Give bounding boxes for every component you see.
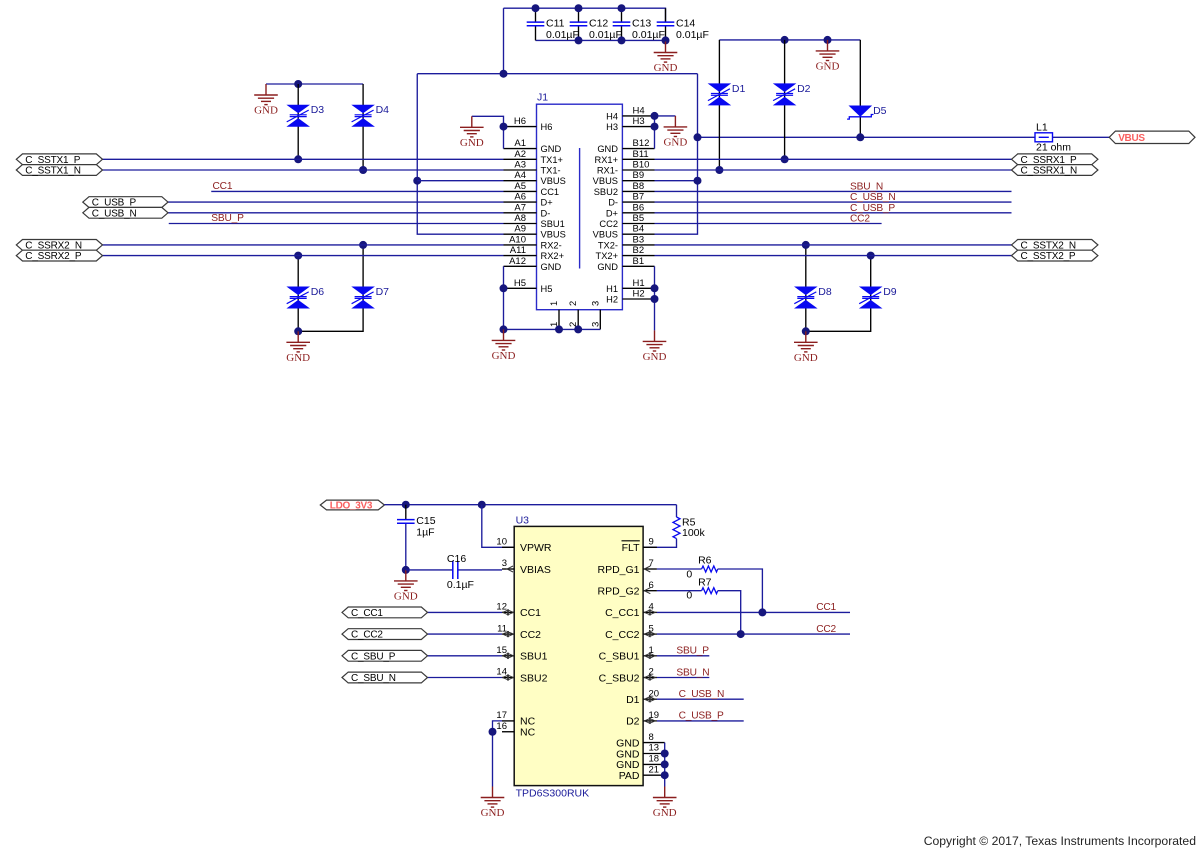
inductor L1 (ferrite bead) xyxy=(1035,122,1071,154)
svg-text:0.01µF: 0.01µF xyxy=(589,29,622,41)
port flag C_SSRX2_P xyxy=(16,250,102,262)
svg-text:D3: D3 xyxy=(311,104,325,116)
IC U3 (TPD6S300RUK) xyxy=(514,515,643,800)
svg-text:CC2: CC2 xyxy=(520,629,541,641)
wire - RPD_G2 to R7 xyxy=(657,590,702,592)
svg-text:1: 1 xyxy=(549,301,559,306)
port flag C_CC1 xyxy=(342,607,428,619)
svg-text:SBU_P: SBU_P xyxy=(676,646,709,657)
svg-text:H3: H3 xyxy=(633,116,645,127)
svg-text:A6: A6 xyxy=(514,192,526,203)
J1 pin A11 (RX2+) xyxy=(504,245,565,261)
J1 pin B10 (RX1-) xyxy=(597,160,655,176)
wire - VBUS horizontal y=73.7 xyxy=(417,73,697,75)
svg-text:VBUS: VBUS xyxy=(593,230,618,240)
U3 pin 3 (VBIAS) xyxy=(502,558,551,576)
diode D6 vertical pin xyxy=(297,256,299,332)
junction xyxy=(478,501,486,509)
J1 pin B3 (TX2-) xyxy=(598,234,655,250)
svg-text:D6: D6 xyxy=(311,286,325,298)
junction xyxy=(500,325,508,333)
port flag C_SSTX1_N xyxy=(16,165,102,177)
svg-text:B4: B4 xyxy=(633,224,645,235)
wire - top of C11-C14 bank xyxy=(504,8,666,22)
svg-text:C_SBU_P: C_SBU_P xyxy=(351,651,396,662)
capacitor C15 xyxy=(397,515,436,539)
svg-text:GND: GND xyxy=(394,590,418,602)
capacitor C16 xyxy=(447,553,474,591)
U3 pin 7 (RPD_G1) xyxy=(597,558,656,576)
U3 pin 11 (CC2) xyxy=(497,623,541,641)
diode D5 vertical pin xyxy=(859,40,861,137)
diode D3 (bidirectional TVS) xyxy=(286,104,324,127)
diode D8 (bidirectional TVS) xyxy=(794,286,832,309)
port flag C_USB_P xyxy=(83,197,168,209)
wire - C_SSTX2_N net xyxy=(655,244,1012,246)
wire - H4/H3/B12 ground hook xyxy=(655,116,676,149)
J1 pin A9 (VBUS) xyxy=(504,224,566,240)
svg-text:A9: A9 xyxy=(514,224,526,235)
capacitor pin x=535.5 xyxy=(535,8,537,40)
svg-text:3: 3 xyxy=(590,322,601,327)
J1 pin A1 (GND) xyxy=(504,138,562,154)
J1 pin A5 (CC1) xyxy=(504,181,560,197)
junction xyxy=(661,771,669,779)
J1 pin B2 (TX2+) xyxy=(596,245,655,261)
J1 pin A3 (TX1-) xyxy=(504,160,561,176)
wire - D1/D2/D5 top rail xyxy=(719,39,860,41)
svg-text:C_SBU2: C_SBU2 xyxy=(599,672,640,684)
ground under C14 xyxy=(654,42,678,75)
svg-text:0: 0 xyxy=(686,589,692,601)
J1 pin A8 (SBU1) xyxy=(504,213,565,229)
port flag C_SSTX2_P xyxy=(1012,250,1098,262)
svg-text:C15: C15 xyxy=(416,515,435,527)
U3 pin 10 (VPWR) xyxy=(496,537,551,555)
wire - NC17 hook xyxy=(493,721,503,732)
svg-text:SBU2: SBU2 xyxy=(520,672,548,684)
junction xyxy=(824,36,832,44)
junction xyxy=(694,133,702,141)
capacitor pin x=578.5 xyxy=(578,8,580,40)
wire - C_SSTX1_N net xyxy=(103,169,504,171)
svg-text:GND: GND xyxy=(643,351,667,363)
wire - GND pins chain xyxy=(664,743,666,787)
wire - C_SSRX1_N net xyxy=(655,169,1012,171)
diode D2 vertical pin xyxy=(784,40,786,159)
svg-text:TX2-: TX2- xyxy=(598,240,618,250)
svg-text:B7: B7 xyxy=(633,192,645,203)
resistor R5 xyxy=(673,516,706,538)
J1 pin H6 (H6) xyxy=(504,116,553,132)
connector J1 (USB Type-C receptacle) xyxy=(537,92,623,310)
svg-text:A3: A3 xyxy=(514,160,526,171)
capacitor C15 top pin xyxy=(405,505,407,520)
svg-text:10: 10 xyxy=(496,537,507,548)
svg-text:0: 0 xyxy=(686,569,692,581)
svg-text:1µF: 1µF xyxy=(416,526,434,538)
svg-text:B5: B5 xyxy=(633,213,645,224)
U3 pin 17 (NC) xyxy=(496,710,535,728)
svg-text:VBUS: VBUS xyxy=(541,176,566,186)
J1 pin A10 (RX2-) xyxy=(504,234,562,250)
wire - C_USB_P net (U3) xyxy=(657,720,744,722)
svg-text:B1: B1 xyxy=(633,256,645,267)
J1 pin H5 (H5) xyxy=(504,278,553,294)
svg-text:C_SBU1: C_SBU1 xyxy=(599,651,640,663)
capacitor pin x=621.5 xyxy=(621,8,623,40)
wire - SBU_N net xyxy=(655,190,1012,192)
svg-text:H4: H4 xyxy=(606,111,618,121)
svg-text:SBU2: SBU2 xyxy=(594,187,618,197)
junction xyxy=(402,566,410,574)
svg-text:C13: C13 xyxy=(632,17,651,29)
svg-text:CC2: CC2 xyxy=(599,219,618,229)
svg-text:2: 2 xyxy=(568,301,578,306)
wire - VBUS to L1 xyxy=(698,136,1036,138)
svg-text:RX1+: RX1+ xyxy=(594,155,618,165)
U3 pin 4 (C_CC1) xyxy=(605,602,657,620)
J1 pin H1 (H1) xyxy=(606,278,654,294)
svg-text:H6: H6 xyxy=(514,116,526,127)
capacitor pin x=665.5 xyxy=(665,8,667,40)
svg-text:SBU1: SBU1 xyxy=(541,219,565,229)
wire - L1 to VBUS flag xyxy=(1053,136,1110,138)
J1 pin A4 (VBUS) xyxy=(504,170,566,186)
svg-text:100k: 100k xyxy=(682,527,706,539)
svg-text:16: 16 xyxy=(496,721,507,732)
J1 pin B1 (GND) xyxy=(597,256,654,272)
svg-text:CC1: CC1 xyxy=(541,187,560,197)
svg-text:C_CC2: C_CC2 xyxy=(351,630,383,641)
svg-text:SBU_N: SBU_N xyxy=(850,182,883,193)
U3 pin 2 (C_SBU2) xyxy=(599,667,657,685)
junction xyxy=(802,327,810,335)
diode D3 vertical pin xyxy=(297,84,299,159)
wire - A12/H5/shell ground xyxy=(504,266,601,329)
U3 pin 1 (C_SBU1) xyxy=(599,645,657,663)
svg-text:A7: A7 xyxy=(514,202,526,213)
port flag C_SSRX1_P xyxy=(1012,154,1098,166)
port flag C_CC2 xyxy=(342,629,428,641)
svg-text:H6: H6 xyxy=(541,122,553,132)
svg-text:B2: B2 xyxy=(633,245,645,256)
svg-text:TPD6S300RUK: TPD6S300RUK xyxy=(516,788,590,800)
port flag VBUS xyxy=(1109,131,1195,144)
svg-text:TX1+: TX1+ xyxy=(541,155,563,165)
junction xyxy=(575,4,583,12)
svg-text:8: 8 xyxy=(649,732,654,743)
svg-text:C_USB_P: C_USB_P xyxy=(850,203,895,214)
junction xyxy=(294,155,302,163)
svg-text:FLT: FLT xyxy=(622,542,640,554)
wire - NC to ground xyxy=(492,732,494,787)
junction xyxy=(359,241,367,249)
svg-text:GND: GND xyxy=(460,137,484,149)
ground at J1 top-left xyxy=(460,116,484,149)
ground under C15 xyxy=(394,570,418,603)
diode D1 (bidirectional TVS) xyxy=(708,83,746,106)
ground top-right rail xyxy=(816,40,840,73)
svg-text:6: 6 xyxy=(649,580,654,591)
junction xyxy=(651,284,659,292)
svg-text:C_SSTX2_P: C_SSTX2_P xyxy=(1021,251,1076,262)
junction xyxy=(532,4,540,12)
junction xyxy=(867,252,875,260)
wire - RPD_G1 to R6 xyxy=(657,568,702,570)
svg-text:B3: B3 xyxy=(633,234,645,245)
svg-text:13: 13 xyxy=(649,743,660,754)
svg-text:3: 3 xyxy=(502,558,507,569)
junction xyxy=(574,325,582,333)
J1 pin A2 (TX1+) xyxy=(504,149,563,165)
svg-text:L1: L1 xyxy=(1036,122,1048,134)
diode D7 (bidirectional TVS) xyxy=(351,286,389,309)
wire - CC1 net (U3) xyxy=(657,611,850,613)
wire - R5 top xyxy=(676,505,678,517)
svg-text:17: 17 xyxy=(496,710,507,721)
junction xyxy=(856,133,864,141)
wire - H6/A1 ground hook xyxy=(472,116,504,148)
svg-text:B8: B8 xyxy=(633,181,645,192)
J1 pin A7 (D-) xyxy=(504,202,551,218)
junction xyxy=(661,760,669,768)
resistor R6 xyxy=(686,555,717,581)
svg-text:A12: A12 xyxy=(509,256,526,267)
junction xyxy=(715,166,723,174)
svg-text:B12: B12 xyxy=(633,138,650,149)
U3 pin 12 (CC1) xyxy=(496,602,541,620)
port flag C_SBU_P xyxy=(342,650,428,662)
svg-text:R7: R7 xyxy=(698,576,712,588)
wire - B9 VBUS xyxy=(655,180,698,182)
capacitor C11 xyxy=(527,17,579,41)
diode D6 (bidirectional TVS) xyxy=(286,286,324,309)
svg-text:A1: A1 xyxy=(514,138,526,149)
svg-text:GND: GND xyxy=(541,144,562,154)
wire - C_CC2 net xyxy=(428,633,503,635)
U3 pin 18 (GND) xyxy=(616,754,665,772)
svg-text:A4: A4 xyxy=(514,170,526,181)
junction xyxy=(294,252,302,260)
svg-text:SBU_P: SBU_P xyxy=(211,213,244,224)
svg-text:RX2+: RX2+ xyxy=(541,251,565,261)
svg-text:TX1-: TX1- xyxy=(541,166,561,176)
wire - SBU_P net xyxy=(169,223,504,225)
wire - C_SSRX2_P net xyxy=(103,255,504,257)
U3 pin 5 (C_CC2) xyxy=(605,623,657,641)
svg-text:A8: A8 xyxy=(514,213,526,224)
J1 pin B9 (VBUS) xyxy=(593,170,655,186)
svg-text:0.01µF: 0.01µF xyxy=(632,29,665,41)
wire - GND net to C16 xyxy=(406,569,453,571)
wire - CC2 net (U3) xyxy=(657,633,850,635)
wire - D3/D4 top rail xyxy=(266,83,363,85)
svg-text:C14: C14 xyxy=(676,17,695,29)
diode D2 (bidirectional TVS) xyxy=(773,83,811,106)
wire - bottom of C11-C14 bank xyxy=(536,39,666,41)
diode D9 (bidirectional TVS) xyxy=(859,286,897,309)
junction xyxy=(294,80,302,88)
U3 pin 21 (PAD) xyxy=(619,764,665,782)
svg-text:RPD_G2: RPD_G2 xyxy=(597,586,639,598)
svg-text:18: 18 xyxy=(649,754,660,765)
wire - R7 to CC2 net xyxy=(718,591,741,634)
J1 shell pin 3 xyxy=(590,301,601,330)
wire - C_USB_P net xyxy=(168,201,504,203)
svg-text:H2: H2 xyxy=(606,295,618,305)
svg-text:21: 21 xyxy=(649,764,660,775)
svg-text:3: 3 xyxy=(590,301,600,306)
junction xyxy=(661,750,669,758)
diode D4 (bidirectional TVS) xyxy=(351,104,389,127)
wire - cap bank left drop (VBUS) xyxy=(503,8,505,74)
wire - SBU_N net (U3) xyxy=(657,677,709,679)
svg-text:B10: B10 xyxy=(633,160,650,171)
svg-text:H2: H2 xyxy=(633,289,645,300)
junction xyxy=(489,728,497,736)
port flag C_SSTX1_P xyxy=(16,154,102,166)
J1 shell pin 1 xyxy=(549,301,560,330)
junction xyxy=(500,284,508,292)
J1 shell pin 2 xyxy=(568,301,579,330)
svg-text:GND: GND xyxy=(254,105,278,117)
port flag LDO_3V3 xyxy=(320,500,384,512)
wire - VBUS right vertical to B4 xyxy=(655,74,698,235)
svg-text:0.01µF: 0.01µF xyxy=(676,29,709,41)
svg-text:C11: C11 xyxy=(546,17,565,29)
svg-text:B9: B9 xyxy=(633,170,645,181)
svg-text:H4: H4 xyxy=(633,105,645,116)
svg-text:C12: C12 xyxy=(589,17,608,29)
J1 pin B4 (VBUS) xyxy=(593,224,655,240)
svg-text:C_USB_N: C_USB_N xyxy=(679,689,725,700)
J1 pin H3 (H3) xyxy=(606,116,654,132)
svg-text:A2: A2 xyxy=(514,149,526,160)
svg-text:C_CC2: C_CC2 xyxy=(605,629,640,641)
diode D7 vertical pin xyxy=(298,245,363,331)
wire - C_SBU_P net xyxy=(428,655,503,657)
wire - C_SSRX1_P net xyxy=(655,158,1012,160)
svg-text:D1: D1 xyxy=(732,83,746,95)
svg-text:GND: GND xyxy=(663,136,687,148)
junction xyxy=(802,241,810,249)
svg-text:A10: A10 xyxy=(509,234,526,245)
port flag C_SBU_N xyxy=(342,672,428,684)
wire - R5 bottom to FLT xyxy=(643,539,676,548)
svg-text:0.1µF: 0.1µF xyxy=(447,579,474,591)
junction xyxy=(555,325,563,333)
svg-text:CC2: CC2 xyxy=(850,214,870,225)
svg-text:GND: GND xyxy=(654,62,678,74)
U3 pin 14 (SBU2) xyxy=(496,667,547,685)
port flag C_USB_N xyxy=(83,207,168,219)
junction xyxy=(413,177,421,185)
svg-text:NC: NC xyxy=(520,727,536,739)
svg-text:RX1-: RX1- xyxy=(597,166,618,176)
U3 pin 19 (D2) xyxy=(626,710,659,728)
wire - C_SSRX2_N net xyxy=(103,244,504,246)
svg-text:CC1: CC1 xyxy=(520,607,541,619)
wire - C_SSTX1_P net xyxy=(103,158,504,160)
ground under J1 right xyxy=(643,330,667,363)
ground left of D3 xyxy=(254,84,278,117)
junction xyxy=(651,295,659,303)
svg-text:VPWR: VPWR xyxy=(520,542,552,554)
svg-text:D5: D5 xyxy=(873,105,887,117)
svg-text:H1: H1 xyxy=(633,278,645,289)
diode D9 vertical pin xyxy=(806,256,871,332)
svg-text:GND: GND xyxy=(481,807,505,819)
J1 pin H4 (H4) xyxy=(606,105,654,121)
svg-text:C_SSRX2_P: C_SSRX2_P xyxy=(25,251,82,262)
svg-text:RPD_G1: RPD_G1 xyxy=(597,564,639,576)
wire - SBU_P net (U3) xyxy=(657,655,709,657)
svg-text:D2: D2 xyxy=(797,83,811,95)
capacitor C14 xyxy=(657,17,709,41)
U3 pin 15 (SBU1) xyxy=(496,645,547,663)
junction xyxy=(694,177,702,185)
svg-text:VBUS: VBUS xyxy=(541,230,566,240)
svg-text:U3: U3 xyxy=(516,515,530,527)
diode D1 vertical pin xyxy=(718,40,720,170)
svg-text:H1: H1 xyxy=(606,284,618,294)
wire - C_USB_P net (right) xyxy=(655,212,1012,214)
port flag C_SSTX2_N xyxy=(1012,240,1098,252)
svg-text:C_SSTX1_N: C_SSTX1_N xyxy=(25,166,80,177)
svg-text:D-: D- xyxy=(541,208,551,218)
svg-text:D7: D7 xyxy=(376,286,390,298)
svg-text:D4: D4 xyxy=(376,104,390,116)
ground at J1 top-right xyxy=(663,116,687,148)
svg-text:GND: GND xyxy=(794,352,818,364)
svg-text:D2: D2 xyxy=(626,716,640,728)
J1 pin B6 (D+) xyxy=(606,202,655,218)
J1 pin B12 (GND) xyxy=(597,138,654,154)
wire - VBUS left vertical to A9 xyxy=(417,74,503,235)
wire - CC2 net xyxy=(655,223,882,225)
svg-text:GND: GND xyxy=(286,352,310,364)
ground under D6/D7 xyxy=(286,331,310,364)
svg-text:D+: D+ xyxy=(606,208,618,218)
svg-text:J1: J1 xyxy=(537,92,548,104)
junction xyxy=(618,36,626,44)
svg-text:D9: D9 xyxy=(883,286,897,298)
svg-text:CC1: CC1 xyxy=(213,181,233,192)
svg-text:C_USB_P: C_USB_P xyxy=(679,711,724,722)
svg-text:21 ohm: 21 ohm xyxy=(1036,142,1071,154)
junction xyxy=(781,36,789,44)
wire - C_SBU_N net xyxy=(428,677,503,679)
svg-text:C_SSRX1_N: C_SSRX1_N xyxy=(1021,166,1078,177)
diode D4 vertical pin xyxy=(362,84,364,170)
wire - R6 to CC1 net xyxy=(718,569,763,612)
wire - C16 to VBIAS xyxy=(458,569,502,571)
junction xyxy=(359,166,367,174)
svg-text:C_SBU_N: C_SBU_N xyxy=(351,673,396,684)
svg-text:Copyright © 2017, Texas Instru: Copyright © 2017, Texas Instruments Inco… xyxy=(924,834,1196,848)
svg-text:H5: H5 xyxy=(541,284,553,294)
U3 pin 20 (D1) xyxy=(626,688,659,706)
J1 pin B5 (CC2) xyxy=(599,213,654,229)
svg-text:RX2-: RX2- xyxy=(541,240,562,250)
svg-text:B11: B11 xyxy=(633,149,649,160)
junction xyxy=(662,36,670,44)
wire - CC1 net xyxy=(211,190,503,192)
junction xyxy=(737,630,745,638)
ground under J1 left xyxy=(492,329,516,362)
J1 pin B11 (RX1+) xyxy=(594,149,654,165)
